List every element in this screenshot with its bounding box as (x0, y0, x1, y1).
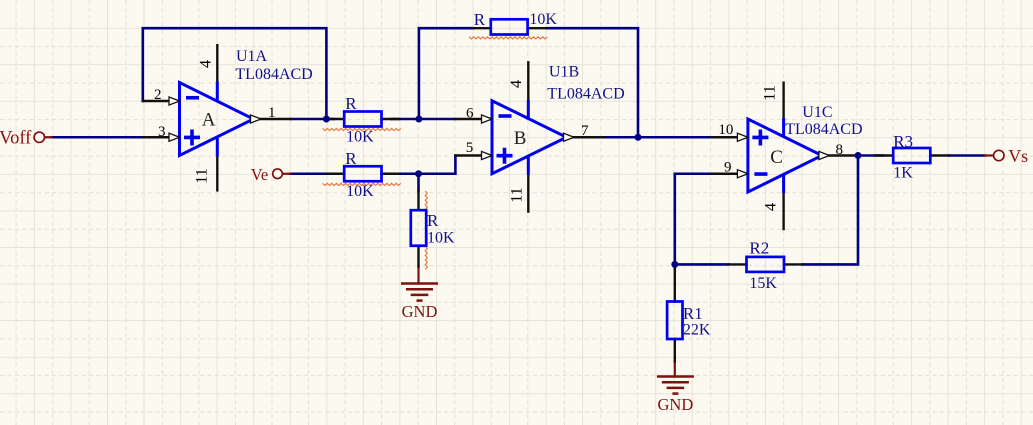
svg-text:4: 4 (763, 203, 780, 211)
svg-text:11: 11 (194, 168, 211, 183)
svg-text:A: A (202, 110, 216, 131)
svg-text:2: 2 (154, 87, 162, 103)
svg-text:TL084ACD: TL084ACD (785, 121, 862, 138)
svg-text:10K: 10K (346, 183, 374, 200)
svg-text:Vs: Vs (1008, 146, 1028, 166)
svg-text:C: C (770, 147, 783, 168)
svg-text:U1B: U1B (549, 64, 579, 81)
svg-text:Ve: Ve (251, 165, 268, 184)
svg-text:7: 7 (581, 123, 589, 139)
svg-text:R: R (427, 211, 439, 230)
svg-text:GND: GND (658, 395, 694, 414)
svg-text:3: 3 (158, 124, 166, 140)
svg-text:R1: R1 (683, 304, 703, 323)
svg-text:11: 11 (508, 187, 525, 202)
svg-text:1K: 1K (893, 165, 913, 182)
svg-text:U1A: U1A (236, 48, 268, 65)
svg-text:10: 10 (718, 122, 733, 138)
svg-text:6: 6 (466, 106, 474, 122)
svg-text:U1C: U1C (802, 104, 832, 121)
svg-text:GND: GND (402, 302, 438, 321)
svg-text:Voff: Voff (0, 129, 32, 149)
svg-text:5: 5 (466, 140, 474, 156)
svg-text:4: 4 (198, 60, 215, 68)
svg-text:8: 8 (836, 142, 844, 158)
svg-text:R: R (474, 10, 486, 29)
svg-text:22K: 22K (683, 321, 711, 338)
svg-text:4: 4 (508, 80, 525, 88)
svg-text:R: R (345, 149, 357, 168)
svg-text:B: B (514, 128, 527, 149)
svg-text:TL084ACD: TL084ACD (235, 66, 312, 83)
svg-text:15K: 15K (749, 275, 777, 292)
svg-text:9: 9 (724, 160, 732, 176)
svg-text:1: 1 (268, 105, 276, 121)
svg-text:TL084ACD: TL084ACD (547, 85, 624, 102)
svg-text:10K: 10K (346, 128, 374, 145)
svg-text:10K: 10K (427, 229, 455, 246)
svg-text:10K: 10K (529, 11, 557, 28)
svg-text:R2: R2 (749, 238, 769, 257)
svg-text:R: R (345, 94, 357, 113)
svg-text:R3: R3 (893, 132, 913, 151)
svg-text:11: 11 (761, 85, 778, 100)
